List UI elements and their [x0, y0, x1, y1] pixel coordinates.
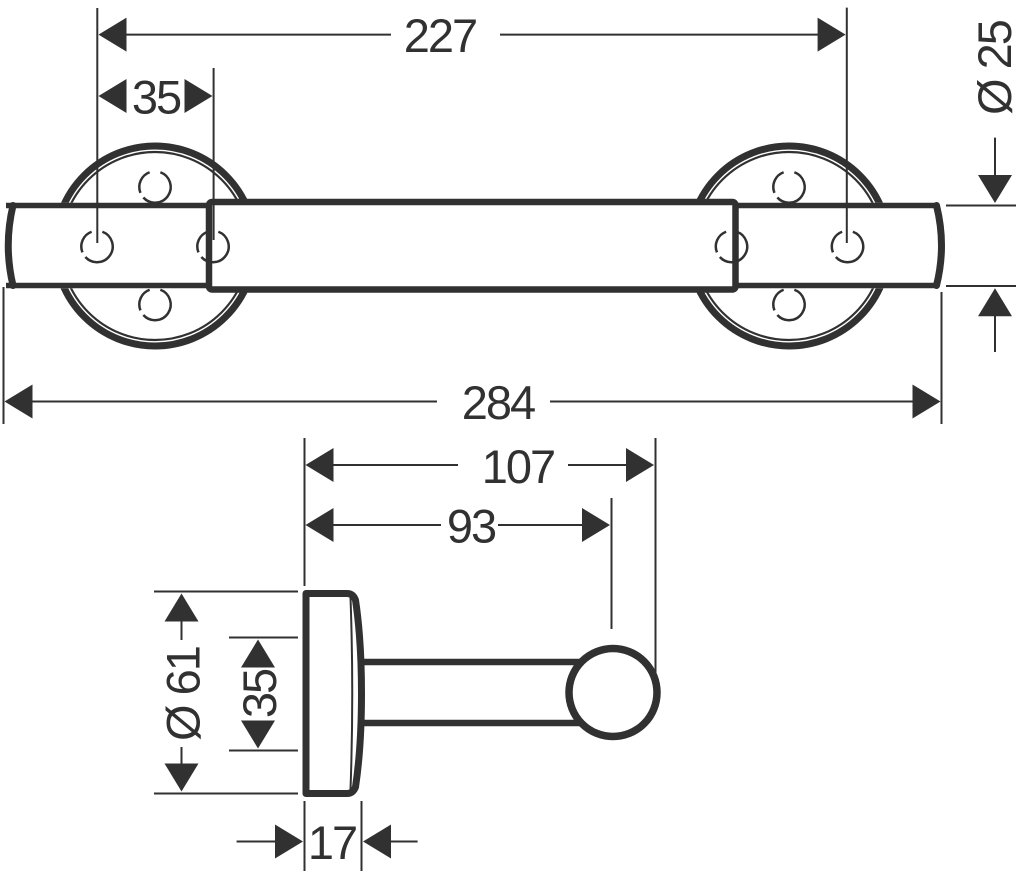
mounting hole right flange bottom — [773, 290, 804, 320]
mounting hole left flange right — [197, 232, 228, 262]
wall plate side view — [306, 594, 362, 794]
holder arm — [362, 662, 590, 723]
svg-text:93: 93 — [447, 500, 496, 553]
svg-text:107: 107 — [482, 440, 554, 493]
dimension diameter 25 leader bottom — [978, 288, 1012, 352]
left flange outer ring — [55, 146, 255, 346]
dimension 227 extension lines — [97, 8, 847, 243]
mounting hole left flange bottom — [139, 290, 170, 320]
mounting hole left flange left — [81, 232, 112, 262]
dimension 284 line and arrows — [5, 385, 941, 419]
svg-text:Ø 61: Ø 61 — [157, 647, 210, 741]
svg-text:35: 35 — [132, 71, 181, 124]
grab bar left end cap — [8, 206, 13, 286]
dimension 35 side arrows — [241, 640, 275, 749]
ball end — [569, 649, 657, 737]
wall plate face line — [351, 598, 353, 790]
mounting hole right flange top — [773, 172, 804, 202]
dimension 93 line and arrows — [306, 508, 611, 542]
mounting hole right flange right — [832, 232, 863, 262]
mounting hole right flange left — [716, 232, 747, 262]
dimension 35 front extension line — [213, 68, 215, 240]
dimension diameter 61 arrows and line — [165, 594, 199, 792]
dimension 227 line and arrows — [99, 18, 846, 52]
svg-text:284: 284 — [462, 376, 535, 429]
mounting hole left flange top — [139, 172, 170, 202]
dimension diameter 25 extension lines — [946, 206, 1016, 287]
dimension 35 side extension lines — [229, 638, 298, 751]
dimension 284 extension lines — [4, 287, 942, 424]
grab bar centre section — [209, 202, 736, 290]
left flange inner ring — [61, 152, 249, 340]
dimension 107 line and arrows — [306, 448, 655, 482]
dimension 93 extension line — [611, 498, 613, 629]
dimension 17 extension lines — [305, 801, 362, 871]
svg-text:35: 35 — [233, 669, 286, 718]
right flange outer ring — [689, 146, 889, 346]
grab bar right end cap — [937, 206, 942, 286]
dimension 35 front arrows — [99, 79, 213, 113]
dimension diameter 25 leader top — [978, 138, 1012, 203]
dimension diameter 61 extension lines — [154, 592, 298, 794]
svg-text:227: 227 — [404, 9, 476, 62]
grab bar left stub — [4, 203, 212, 288]
dimension 107 extension lines — [305, 438, 656, 676]
svg-text:17: 17 — [308, 816, 356, 869]
svg-text:Ø 25: Ø 25 — [968, 20, 1021, 115]
dimension 17 line and arrows — [237, 825, 418, 859]
right flange inner ring — [695, 152, 883, 340]
grab bar right stub — [732, 203, 940, 288]
